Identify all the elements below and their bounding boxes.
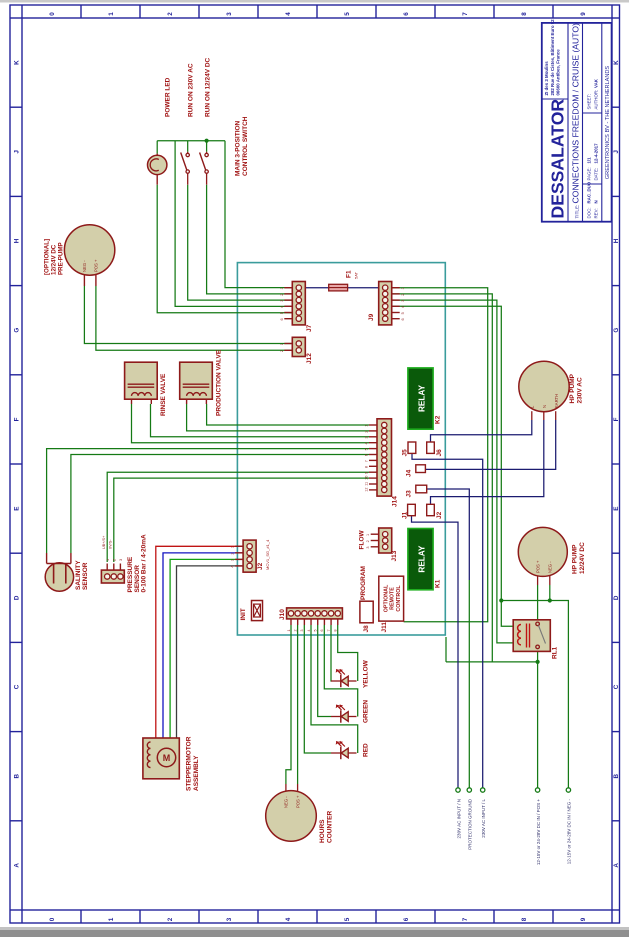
svg-text:230V AC INPUT / L: 230V AC INPUT / L (481, 799, 486, 838)
svg-text:J6: J6 (436, 449, 443, 457)
svg-text:K: K (13, 60, 20, 65)
svg-text:6: 6 (403, 12, 410, 16)
svg-text:0-100 Bar / 4-20mA: 0-100 Bar / 4-20mA (141, 534, 148, 592)
svg-text:5: 5 (401, 312, 405, 314)
svg-text:4: 4 (285, 12, 292, 16)
svg-text:8: 8 (365, 466, 369, 468)
svg-text:N: N (542, 405, 547, 408)
svg-text:B: B (13, 773, 20, 778)
svg-text:5: 5 (280, 312, 284, 314)
svg-text:J14: J14 (392, 496, 399, 507)
svg-text:FLOW: FLOW (359, 530, 366, 550)
svg-text:0V/S-: 0V/S- (108, 539, 112, 549)
svg-text:J1: J1 (402, 511, 409, 519)
svg-text:5: 5 (314, 630, 318, 632)
svg-text:230V AC INPUT / N: 230V AC INPUT / N (456, 799, 461, 838)
svg-text:10: 10 (365, 476, 369, 480)
svg-text:2: 2 (280, 350, 284, 352)
svg-text:D: D (13, 595, 20, 600)
svg-text:3: 3 (366, 546, 370, 548)
svg-text:J4: J4 (406, 469, 413, 477)
svg-text:6: 6 (280, 318, 284, 320)
svg-text:1: 1 (108, 917, 115, 921)
svg-text:ZI des 3 Moulins: ZI des 3 Moulins (544, 61, 549, 96)
svg-text:RELAY: RELAY (418, 384, 427, 412)
svg-text:1: 1 (401, 287, 405, 289)
svg-text:SENSOR: SENSOR (82, 562, 89, 590)
svg-text:POS +: POS + (295, 795, 300, 808)
svg-text:E: E (613, 506, 620, 510)
svg-text:H: H (613, 238, 620, 243)
svg-text:1: 1 (366, 534, 370, 536)
svg-text:5: 5 (344, 12, 351, 16)
svg-text:1: 1 (106, 559, 110, 561)
svg-text:[OPTIONAL]: [OPTIONAL] (44, 239, 51, 275)
svg-text:G: G (13, 328, 20, 333)
svg-text:J12: J12 (306, 353, 313, 364)
svg-text:6: 6 (403, 917, 410, 921)
svg-text:230V AC: 230V AC (577, 377, 584, 403)
svg-text:H: H (13, 238, 20, 243)
svg-text:12/24V DC: 12/24V DC (579, 542, 586, 574)
svg-text:2: 2 (167, 12, 174, 16)
svg-text:12/24V DC: 12/24V DC (51, 244, 58, 275)
svg-text:2: 2 (365, 431, 369, 433)
svg-text:4: 4 (365, 442, 369, 444)
svg-text:POS +: POS + (536, 560, 541, 573)
svg-text:PROTECTION GROUND: PROTECTION GROUND (468, 798, 473, 850)
svg-text:F: F (613, 417, 620, 421)
svg-text:J2: J2 (436, 511, 443, 519)
svg-text:F: F (13, 417, 20, 421)
svg-text:9: 9 (365, 472, 369, 474)
svg-text:4: 4 (401, 306, 405, 308)
svg-text:A: A (13, 863, 20, 868)
svg-text:1: 1 (108, 12, 115, 16)
svg-text:J2: J2 (257, 562, 264, 570)
svg-text:STEPPERMOTOR: STEPPERMOTOR (186, 736, 193, 791)
svg-text:K: K (613, 60, 620, 65)
svg-text:7: 7 (365, 460, 369, 462)
svg-text:RELAY: RELAY (418, 545, 427, 573)
svg-text:HP PUMP: HP PUMP (569, 373, 576, 403)
svg-text:3: 3 (401, 300, 405, 302)
svg-text:6: 6 (401, 318, 405, 320)
svg-text:K1: K1 (435, 579, 442, 588)
svg-text:POS +: POS + (94, 259, 99, 272)
svg-text:3: 3 (231, 559, 235, 561)
svg-text:7: 7 (462, 12, 469, 16)
svg-text:1: 1 (287, 630, 291, 632)
svg-text:4: 4 (280, 306, 284, 308)
svg-text:NEG -: NEG - (284, 796, 289, 808)
svg-text:CONTROL: CONTROL (396, 585, 402, 612)
svg-text:PROGRAM: PROGRAM (360, 566, 367, 600)
svg-text:HOURS: HOURS (319, 819, 326, 843)
svg-text:9: 9 (580, 12, 587, 16)
svg-text:NEG -: NEG - (548, 561, 553, 573)
svg-text:A: A (613, 863, 620, 868)
svg-text:J9: J9 (368, 313, 375, 321)
svg-text:11: 11 (365, 482, 369, 486)
svg-text:2: 2 (231, 553, 235, 555)
svg-text:12-15V or 24-28V DC IN / POS +: 12-15V or 24-28V DC IN / POS + (536, 799, 541, 866)
svg-text:POWER LED: POWER LED (165, 77, 172, 117)
svg-text:2: 2 (366, 540, 370, 542)
svg-text:M: M (163, 753, 171, 763)
svg-text:1: 1 (365, 425, 369, 427)
svg-text:J: J (613, 150, 620, 154)
svg-text:TITLE: CONNECTIONS FREEDOM / C: TITLE: CONNECTIONS FREEDOM / CRUISE (AUT… (571, 23, 581, 219)
svg-text:3: 3 (300, 630, 304, 632)
svg-text:OPTIONAL: OPTIONAL (383, 584, 389, 612)
svg-text:2: 2 (167, 917, 174, 921)
svg-text:E: E (13, 506, 20, 510)
svg-text:N: N (594, 200, 599, 203)
svg-text:J13: J13 (391, 550, 398, 561)
svg-text:B: B (613, 773, 620, 778)
svg-text:0: 0 (49, 12, 56, 16)
svg-text:1: 1 (280, 287, 284, 289)
svg-text:3: 3 (365, 436, 369, 438)
svg-text:7: 7 (327, 630, 331, 632)
svg-text:GREENTRONICS BV - THE NETHERLA: GREENTRONICS BV - THE NETHERLANDS (605, 66, 611, 180)
svg-text:PRE-PUMP: PRE-PUMP (58, 242, 65, 275)
svg-text:12-15V or 24-28V DC IN / NEG -: 12-15V or 24-28V DC IN / NEG - (567, 799, 572, 865)
svg-text:HP PUMP: HP PUMP (572, 544, 579, 574)
svg-text:REV:: REV: (594, 208, 599, 218)
svg-text:F1: F1 (346, 270, 353, 278)
svg-text:J10: J10 (279, 609, 286, 620)
svg-text:2: 2 (280, 294, 284, 296)
svg-text:1: 1 (280, 343, 284, 345)
svg-text:9: 9 (580, 917, 587, 921)
svg-text:3: 3 (119, 559, 123, 561)
svg-text:REMOTE: REMOTE (390, 587, 396, 610)
svg-text:7: 7 (462, 917, 469, 921)
svg-text:4: 4 (307, 630, 311, 632)
svg-text:8: 8 (334, 630, 338, 632)
svg-text:5: 5 (344, 917, 351, 921)
svg-text:J8: J8 (363, 625, 370, 633)
svg-text:4: 4 (231, 566, 235, 568)
svg-text:J11: J11 (381, 622, 388, 633)
svg-text:PRODUCTION VALVE: PRODUCTION VALVE (216, 349, 223, 416)
svg-text:ASSEMBLY: ASSEMBLY (193, 755, 200, 791)
svg-text:UB+/S+: UB+/S+ (102, 535, 106, 549)
svg-text:RED: RED (363, 743, 370, 757)
svg-text:6: 6 (320, 630, 324, 632)
svg-text:J5: J5 (402, 449, 409, 457)
svg-text:J7: J7 (306, 324, 313, 332)
svg-text:12-4-2017: 12-4-2017 (594, 143, 599, 164)
svg-text:RL1: RL1 (552, 646, 559, 659)
svg-text:D: D (613, 595, 620, 600)
svg-text:282 Rue de Cistes, Bâtiment Eu: 282 Rue de Cistes, Bâtiment Euro 92 (550, 19, 555, 96)
svg-text:EARTH: EARTH (554, 394, 559, 408)
svg-text:INIT: INIT (240, 608, 247, 620)
svg-text:RAC_DUO: RAC_DUO (587, 181, 592, 203)
svg-text:1: 1 (231, 546, 235, 548)
svg-text:J: J (13, 150, 20, 154)
svg-text:2: 2 (113, 559, 117, 561)
svg-text:GREEN: GREEN (363, 700, 370, 723)
svg-text:2: 2 (293, 630, 297, 632)
svg-text:C: C (13, 684, 20, 689)
svg-text:MCV1_SG_#1_4: MCV1_SG_#1_4 (265, 539, 270, 570)
svg-text:06600 Antibes, France: 06600 Antibes, France (555, 49, 560, 96)
svg-text:PAGE:: PAGE: (587, 167, 592, 180)
svg-text:5AT: 5AT (354, 271, 359, 279)
svg-text:VAK: VAK (594, 78, 599, 88)
svg-text:8: 8 (521, 12, 528, 16)
svg-text:RINSE VALVE: RINSE VALVE (160, 373, 167, 416)
svg-text:NEG -: NEG - (82, 260, 87, 272)
svg-text:SHEET:: SHEET: (587, 94, 592, 109)
svg-text:3: 3 (226, 12, 233, 16)
svg-text:3: 3 (226, 917, 233, 921)
svg-text:4: 4 (285, 917, 292, 921)
svg-text:6: 6 (365, 454, 369, 456)
svg-text:G: G (613, 328, 620, 333)
svg-text:DATE:: DATE: (594, 168, 599, 181)
svg-text:K2: K2 (435, 415, 442, 424)
svg-text:CONTROL SWITCH: CONTROL SWITCH (242, 116, 249, 176)
svg-text:RUN ON 12/24V DC: RUN ON 12/24V DC (205, 57, 212, 117)
svg-text:YELLOW: YELLOW (363, 659, 370, 688)
svg-text:1/1: 1/1 (587, 157, 592, 164)
svg-text:8: 8 (521, 917, 528, 921)
svg-text:COUNTER: COUNTER (327, 811, 334, 843)
svg-text:DOC:: DOC: (587, 208, 592, 219)
svg-text:2: 2 (401, 294, 405, 296)
svg-text:C: C (613, 684, 620, 689)
svg-text:12: 12 (365, 487, 369, 491)
svg-text:DESSALATOR: DESSALATOR (548, 99, 568, 219)
svg-text:J3: J3 (406, 490, 413, 498)
svg-text:5: 5 (365, 448, 369, 450)
svg-text:MAIN 3-POSITION: MAIN 3-POSITION (235, 120, 242, 176)
svg-text:0: 0 (49, 917, 56, 921)
svg-text:AUTHOR:: AUTHOR: (594, 90, 599, 110)
svg-text:RUN ON 230V AC: RUN ON 230V AC (188, 63, 195, 117)
svg-text:3: 3 (280, 300, 284, 302)
